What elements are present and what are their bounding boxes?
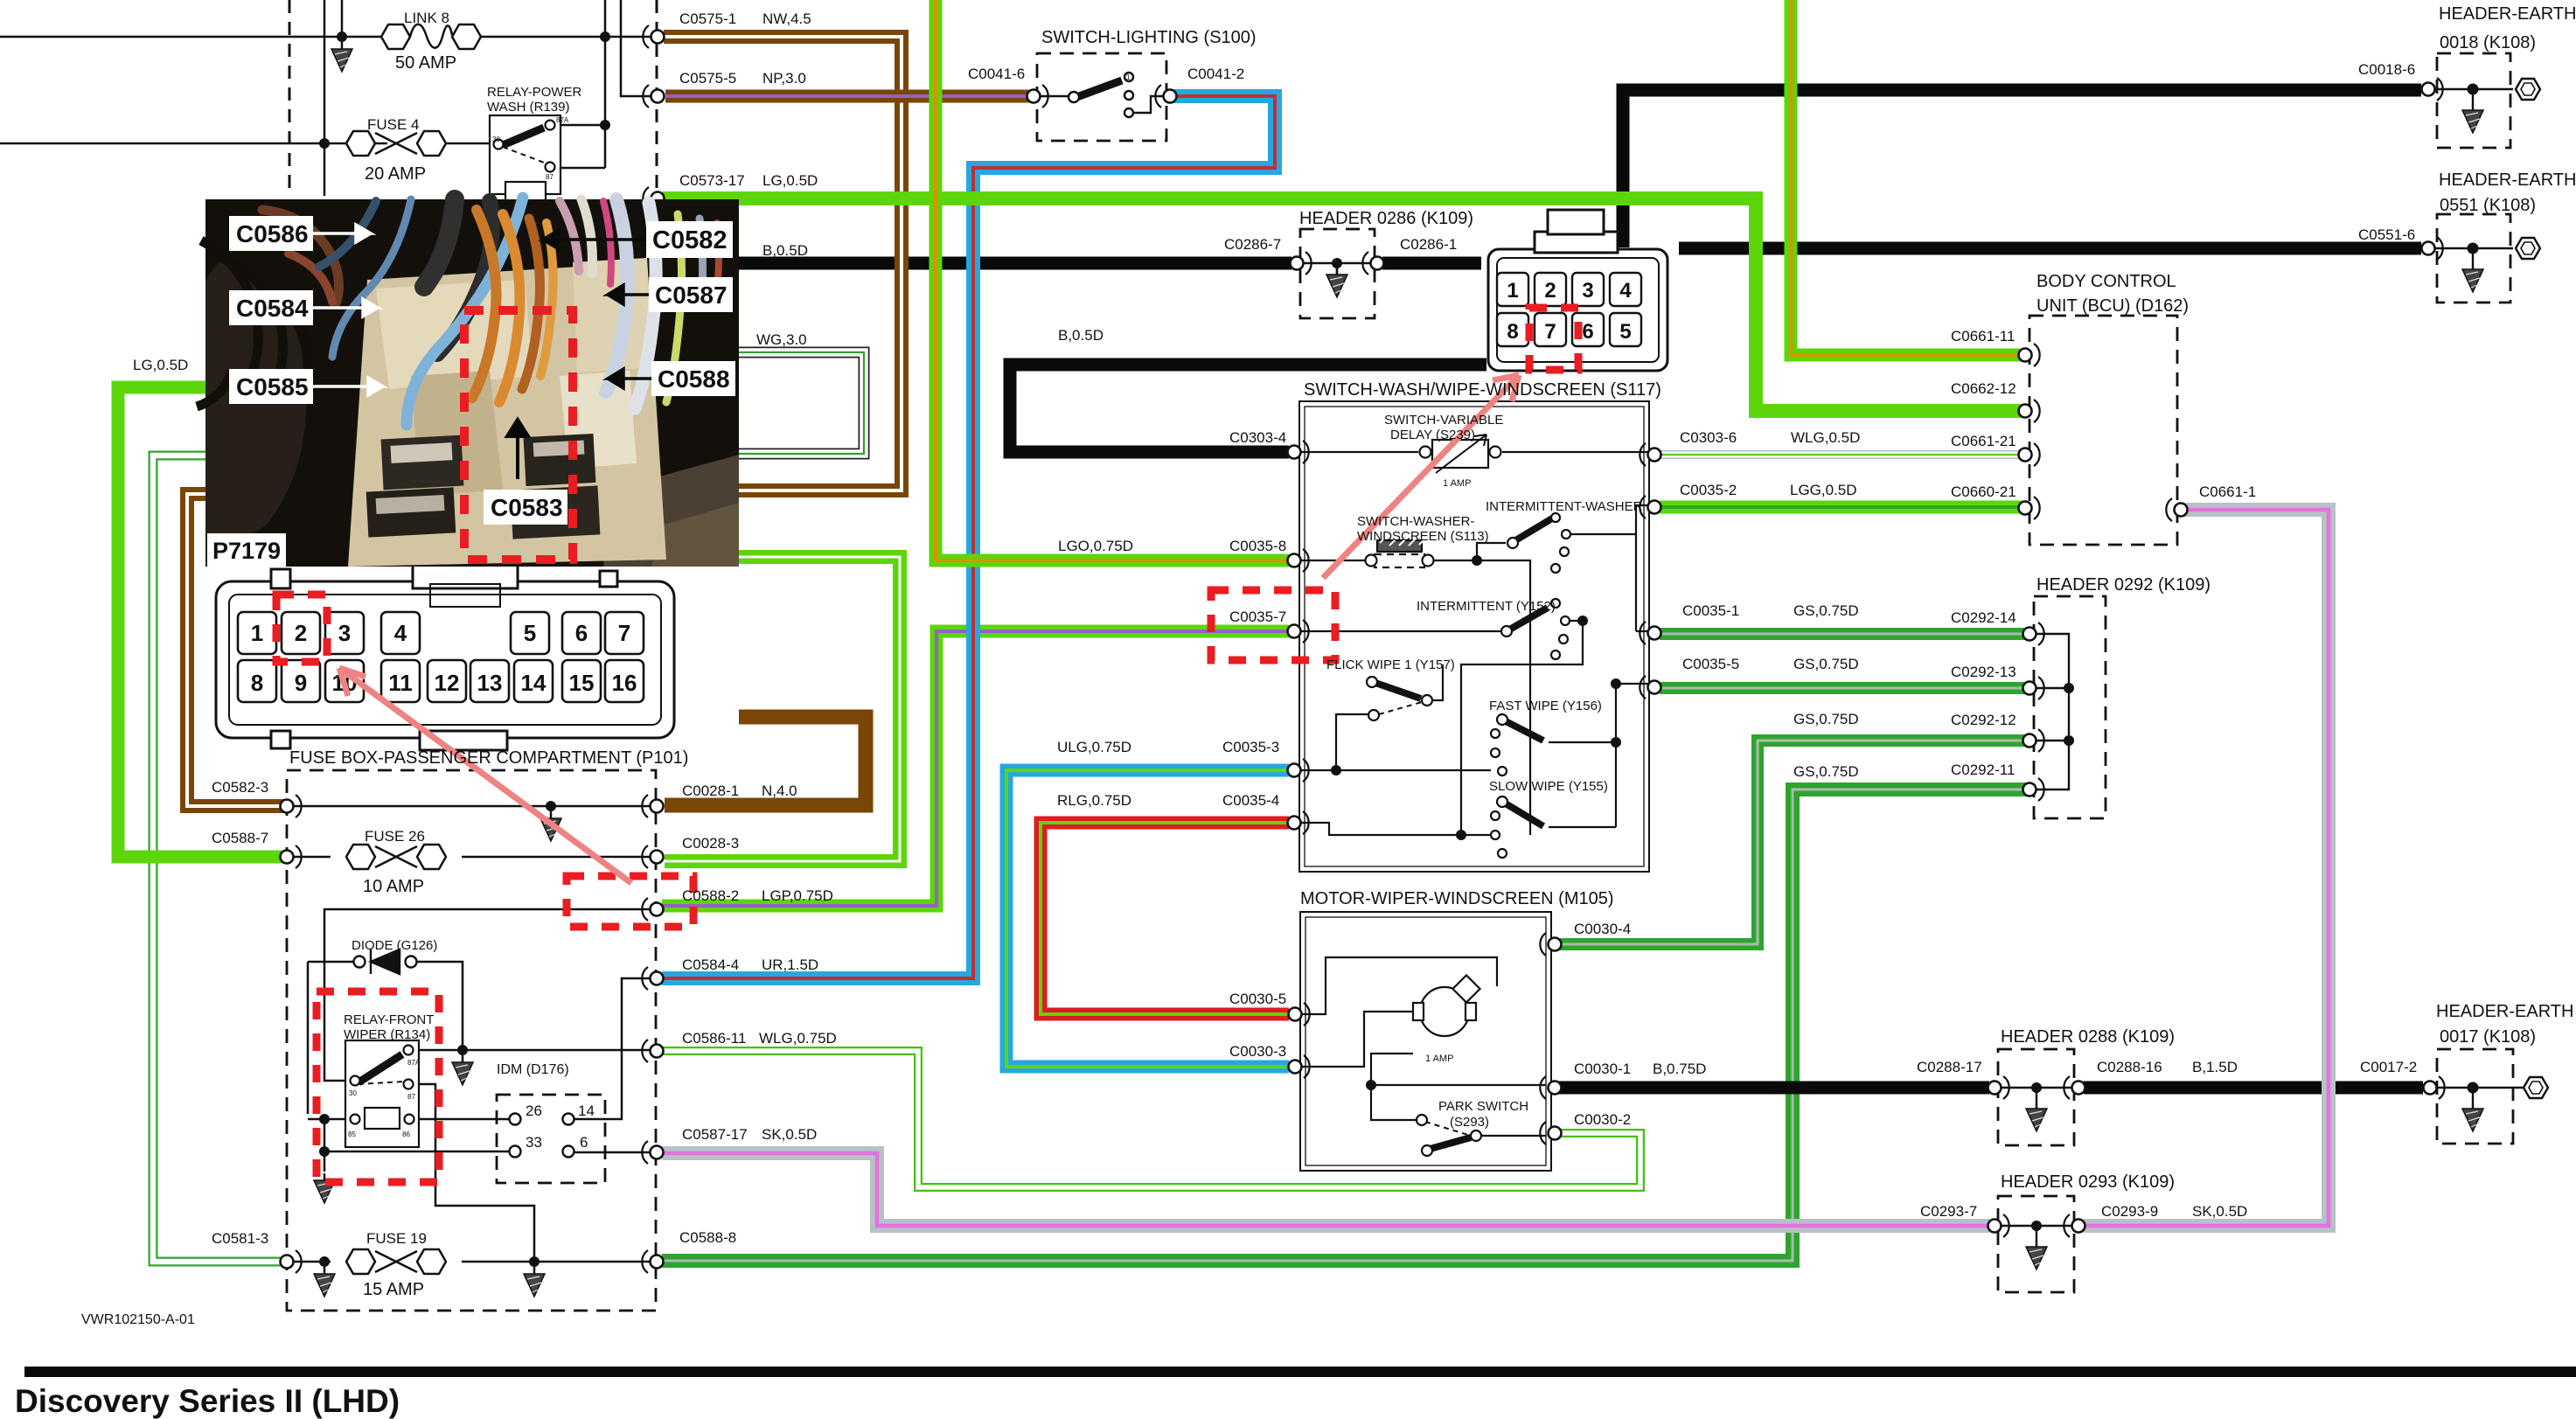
svg-text:C0588-7: C0588-7 (212, 830, 268, 846)
wire 87A to C0586-11 (414, 1049, 651, 1052)
wire FUSE4 row (0, 143, 495, 145)
connectors S117 right edge (1640, 443, 1660, 466)
svg-text:C0662-12: C0662-12 (1951, 380, 2016, 397)
flick wipe Y157 (1375, 683, 1421, 699)
relay R134 RELAY-FRONT WIPER (345, 1040, 419, 1147)
wire IDM 6 to C0587-17 (574, 1151, 651, 1154)
svg-text:C0035-7: C0035-7 (1229, 609, 1286, 625)
svg-text:3: 3 (1582, 279, 1593, 303)
svg-text:2: 2 (295, 620, 307, 646)
wire row C0303-4 to S239 to C0303-6 (1299, 452, 1649, 455)
svg-text:C0035-8: C0035-8 (1229, 538, 1286, 554)
connector boundary dashed line left (289, 0, 291, 196)
svg-text:C0583: C0583 (491, 494, 563, 521)
wire N,4.0 loop C0028-1 (665, 717, 866, 805)
svg-text:50 AMP: 50 AMP (395, 53, 456, 73)
box IDM D176 (497, 1095, 605, 1183)
ground below 87A dot (452, 1055, 473, 1085)
junction dot row922 (546, 801, 556, 811)
svg-text:NP,3.0: NP,3.0 (762, 70, 806, 87)
svg-text:C0551-6: C0551-6 (2358, 226, 2415, 243)
svg-text:C0660-21: C0660-21 (1951, 483, 2016, 500)
wire feed vertical to FUSE 4 (324, 0, 326, 196)
wire WLG,0.75D C0586-11 to C0030-2 (662, 1051, 1640, 1187)
diode G126 (354, 949, 417, 974)
junction dot 87A column (600, 31, 610, 42)
slow wipe Y155 (1504, 803, 1543, 826)
wire LGP,0.75D C0588-2 to C0035-7 (662, 631, 1289, 906)
svg-text:FUSE 19: FUSE 19 (366, 1230, 427, 1247)
svg-text:INTERMITTENT (Y152): INTERMITTENT (Y152) (1417, 599, 1556, 614)
svg-text:87A: 87A (407, 1059, 421, 1067)
svg-text:N,4.0: N,4.0 (762, 783, 797, 799)
photo label P7179 (207, 533, 286, 567)
svg-text:6: 6 (580, 1134, 588, 1151)
wire WG,3.0 loop right of photo (739, 352, 864, 454)
IDM D176 pins (510, 1114, 574, 1158)
svg-text:6: 6 (575, 620, 588, 646)
svg-text:15 AMP: 15 AMP (363, 1280, 424, 1299)
svg-text:C0303-4: C0303-4 (1229, 429, 1286, 446)
photo label C0583 (484, 490, 567, 525)
wire LG C0028-3 loop (665, 557, 900, 861)
motor M105 symbol (1420, 987, 1469, 1036)
wire 85 left (308, 1118, 350, 1121)
photo label C0587 (608, 277, 733, 312)
wire G C0581-3 loop at left (153, 456, 285, 1262)
photo relay blocks (366, 434, 601, 539)
svg-text:C0582-3: C0582-3 (212, 779, 268, 796)
svg-text:26: 26 (526, 1103, 542, 1119)
svg-text:HEADER-EARTH: HEADER-EARTH (2439, 4, 2576, 24)
fuse FUSE 4 (346, 131, 446, 156)
svg-text:HEADER 0288 (K109): HEADER 0288 (K109) (2001, 1027, 2175, 1047)
connectors fuse box right edge (642, 795, 663, 817)
svg-text:0551 (K108): 0551 (K108) (2440, 196, 2536, 215)
photo label C0582 (543, 221, 733, 258)
svg-text:WG,3.0: WG,3.0 (756, 331, 807, 348)
svg-text:FAST WIPE (Y156): FAST WIPE (Y156) (1489, 699, 1602, 713)
box switch-lighting S100 (1037, 53, 1166, 141)
box header-earth 0017 (2437, 1049, 2513, 1144)
svg-text:C0035-2: C0035-2 (1680, 482, 1737, 498)
box fuse box P101 (287, 770, 656, 1311)
red box relay R134 (317, 991, 439, 1182)
wire NW C0582-3 loop at left (187, 494, 285, 806)
red box pin7 of 8-pin (1529, 308, 1578, 370)
svg-text:P7179: P7179 (212, 538, 281, 564)
svg-text:DELAY (S239): DELAY (S239) (1390, 428, 1475, 442)
box header 0288 (1998, 1049, 2074, 1145)
svg-text:C0661-1: C0661-1 (2199, 483, 2256, 500)
fuse FUSE 19 (346, 1249, 446, 1274)
box BCU D162 (2029, 316, 2177, 545)
svg-text:GS,0.75D: GS,0.75D (1793, 602, 1859, 619)
svg-text:SK,0.5D: SK,0.5D (2192, 1203, 2247, 1220)
wire WLG,0.5D C0303-6 to C0661-21 (1660, 450, 2025, 459)
connectors header 0293 (1988, 1214, 2009, 1237)
svg-text:C0293-7: C0293-7 (1920, 1203, 1977, 1220)
svg-text:15: 15 (569, 670, 595, 696)
wire LGO,0.75D vertical 2 to BCU C0661-11 (1791, 0, 2025, 355)
junction dot link8 (337, 31, 347, 42)
svg-text:0018 (K108): 0018 (K108) (2440, 33, 2536, 52)
connectors S117 left edge (1288, 441, 1309, 463)
svg-text:B,1.5D: B,1.5D (2192, 1059, 2238, 1075)
svg-text:C0588-2: C0588-2 (682, 887, 739, 904)
svg-text:4: 4 (394, 620, 407, 646)
svg-text:PARK SWITCH: PARK SWITCH (1438, 1099, 1528, 1114)
svg-text:SWITCH-VARIABLE: SWITCH-VARIABLE (1384, 413, 1503, 428)
svg-text:C0035-3: C0035-3 (1222, 739, 1279, 755)
junction dot fuse19 right (529, 1256, 540, 1267)
svg-text:RLG,0.75D: RLG,0.75D (1057, 792, 1131, 809)
photo label C0586 (229, 216, 371, 251)
svg-text:8: 8 (251, 670, 263, 696)
svg-text:C0587-17: C0587-17 (682, 1126, 748, 1143)
svg-text:IDM (D176): IDM (D176) (497, 1062, 569, 1077)
svg-text:GS,0.75D: GS,0.75D (1793, 763, 1859, 780)
svg-text:C0585: C0585 (236, 373, 309, 400)
svg-text:6: 6 (1582, 320, 1593, 344)
svg-text:C0030-5: C0030-5 (1229, 991, 1286, 1007)
svg-text:C0028-3: C0028-3 (682, 835, 739, 852)
wire 86 to IDM 26 (415, 1118, 509, 1121)
ground below fuse19 left (314, 1267, 335, 1297)
svg-text:HEADER 0293 (K109): HEADER 0293 (K109) (2001, 1172, 2175, 1192)
ground below fuse19 right (524, 1267, 545, 1297)
svg-text:FUSE BOX-PASSENGER COMPARTMENT: FUSE BOX-PASSENGER COMPARTMENT (P101) (289, 748, 688, 768)
connectors header 0292 (2023, 623, 2044, 645)
svg-text:UR,1.5D: UR,1.5D (762, 956, 818, 973)
M105 interior (1300, 957, 1546, 1156)
wire NW,4.5 C0575-1 (664, 37, 902, 490)
svg-text:14: 14 (521, 670, 547, 696)
connectors BCU (2019, 344, 2040, 366)
box header-earth 0551 (2437, 214, 2510, 303)
switch-variable delay S239 resistor (1432, 440, 1488, 468)
photo up arrow at C0583 (507, 420, 528, 479)
svg-text:C0035-5: C0035-5 (1682, 656, 1739, 672)
wire B to header-earth 0018 C0018-6 (1623, 90, 2421, 247)
svg-text:C0030-1: C0030-1 (1574, 1061, 1631, 1077)
svg-text:C0661-11: C0661-11 (1951, 328, 2015, 344)
svg-text:85: 85 (348, 1130, 356, 1138)
svg-text:C0573-17: C0573-17 (679, 172, 745, 189)
photo floor bottom right (603, 455, 739, 567)
wire 33 row to IDM (324, 1119, 509, 1151)
svg-text:C0030-4: C0030-4 (1574, 921, 1631, 937)
svg-text:GS,0.75D: GS,0.75D (1793, 711, 1859, 727)
connectors S100 (1027, 85, 1048, 108)
svg-text:HEADER 0286 (K109): HEADER 0286 (K109) (1299, 209, 1473, 228)
svg-text:SWITCH-WASH/WIPE-WINDSCREEN (S: SWITCH-WASH/WIPE-WINDSCREEN (S117) (1304, 380, 1661, 400)
svg-text:FUSE 4: FUSE 4 (367, 116, 420, 133)
box header-earth 0018 (2437, 53, 2510, 148)
wire row C0582-3/C0028-1 (291, 805, 651, 808)
wire relay 30 feed (324, 1075, 350, 1081)
wire diode row (308, 962, 463, 1114)
svg-text:C0292-13: C0292-13 (1951, 664, 2016, 680)
svg-text:5: 5 (524, 620, 536, 646)
relay R139 coil stub below (mostly hidden by photo) (505, 182, 546, 201)
svg-text:B,0.5D: B,0.5D (762, 242, 808, 259)
svg-text:C0286-7: C0286-7 (1224, 236, 1281, 253)
wire LGG,0.5D C0035-2 to C0660-21 (1660, 501, 2025, 514)
wire link8 to C0575-1 connector (605, 36, 651, 38)
svg-text:C0292-14: C0292-14 (1951, 609, 2016, 626)
park switch S293 (1427, 1137, 1471, 1150)
photo red dashed box (464, 310, 573, 560)
svg-text:ULG,0.75D: ULG,0.75D (1057, 739, 1131, 755)
svg-text:7: 7 (618, 620, 630, 646)
svg-text:14: 14 (578, 1103, 595, 1119)
svg-text:NW,4.5: NW,4.5 (762, 10, 811, 27)
svg-text:10 AMP: 10 AMP (363, 877, 424, 896)
photo wire bundles top (245, 198, 719, 425)
wire 87 branch down to fuse19 row (414, 1084, 534, 1256)
connectors M105 (1289, 1003, 1310, 1026)
svg-text:LINK 8: LINK 8 (404, 10, 449, 26)
svg-text:C0288-17: C0288-17 (1917, 1059, 1982, 1075)
svg-text:VWR102150-A-01: VWR102150-A-01 (81, 1312, 195, 1327)
ULG row C0035-3 (1299, 769, 1491, 771)
svg-text:WLG,0.75D: WLG,0.75D (759, 1030, 837, 1047)
svg-text:RELAY-FRONT: RELAY-FRONT (344, 1012, 434, 1027)
wire UR,1.5D C0041-2 to C0584-4 (662, 96, 1275, 978)
svg-text:C0584: C0584 (236, 295, 309, 322)
svg-text:LG,0.5D: LG,0.5D (133, 357, 188, 373)
wire fuse19 row (291, 1261, 651, 1263)
red box pin2 of 16-pin (276, 595, 327, 662)
svg-text:C0293-9: C0293-9 (2101, 1203, 2158, 1220)
svg-text:C0035-4: C0035-4 (1222, 792, 1279, 809)
svg-text:C0030-2: C0030-2 (1574, 1111, 1631, 1128)
wire top vertical to C0575-5 (621, 0, 651, 96)
wire ULG,0.75D C0035-3 to C0030-3 (1006, 770, 1289, 1067)
box header 0292 (2034, 596, 2106, 818)
wire RLG,0.75D C0035-4 to C0030-5 (1041, 823, 1289, 1014)
svg-text:LGO,0.75D: LGO,0.75D (1058, 538, 1133, 554)
svg-text:20 AMP: 20 AMP (365, 164, 426, 184)
svg-text:C0018-6: C0018-6 (2358, 61, 2415, 78)
wire ground stub below 33 (324, 1151, 326, 1172)
wire C0588-2 branch (324, 909, 651, 1075)
svg-text:C0041-2: C0041-2 (1187, 66, 1244, 82)
svg-text:5: 5 (1619, 320, 1631, 344)
junction dot 85 (319, 1114, 330, 1124)
svg-text:C0041-6: C0041-6 (968, 66, 1025, 82)
wire B,0.5D loop to C0303-4 (1010, 365, 1486, 452)
svg-text:BODY CONTROL: BODY CONTROL (2036, 272, 2176, 291)
svg-text:33: 33 (526, 1134, 542, 1151)
wire GS,0.75D C0588-8 to C0292-11 (662, 789, 2029, 1261)
svg-text:87: 87 (407, 1093, 415, 1101)
svg-text:GS,0.75D: GS,0.75D (1793, 656, 1859, 672)
wire LINK8 row (0, 0, 605, 168)
connectors header 0288 (1988, 1076, 2009, 1099)
junction dot fuse4 (319, 138, 330, 149)
svg-text:C0028-1: C0028-1 (682, 783, 739, 799)
svg-text:LGP,0.75D: LGP,0.75D (762, 887, 833, 904)
svg-text:WLG,0.5D: WLG,0.5D (1791, 429, 1860, 446)
box header 0293 (1998, 1196, 2074, 1292)
fuse FUSE 26 (346, 845, 446, 869)
red box C0588-2 (567, 876, 693, 927)
svg-text:C0588: C0588 (658, 365, 730, 393)
junction dot fuse19 left (319, 1256, 330, 1267)
S117 interior linework (1299, 435, 1649, 858)
svg-text:C0661-21: C0661-21 (1951, 433, 2016, 449)
svg-text:MOTOR-WIPER-WINDSCREEN (M105): MOTOR-WIPER-WINDSCREEN (M105) (1300, 889, 1614, 908)
ground below LINK8 junction (331, 42, 352, 72)
svg-text:1: 1 (251, 620, 263, 646)
photo label C0584 (229, 290, 378, 325)
ground below 33 (314, 1173, 335, 1203)
svg-text:87: 87 (546, 173, 553, 181)
svg-text:C0017-2: C0017-2 (2360, 1059, 2417, 1075)
svg-text:1: 1 (1126, 73, 1131, 81)
svg-text:8: 8 (1507, 320, 1518, 344)
wire B,0.5D C0286-7 from photo to header 0286 (739, 257, 1481, 270)
svg-text:SWITCH-WASHER-: SWITCH-WASHER- (1357, 514, 1474, 529)
box header 0286 (1300, 229, 1375, 318)
svg-text:C0575-5: C0575-5 (679, 70, 736, 87)
wire GS,0.75D C0035-1 to C0292-14 (1660, 628, 2029, 640)
fuse LINK 8 (381, 24, 481, 49)
fast wipe Y156 (1504, 720, 1543, 741)
svg-text:FUSE 26: FUSE 26 (365, 828, 425, 845)
ground below row922 (540, 811, 561, 841)
svg-text:LG,0.5D: LG,0.5D (762, 172, 818, 189)
svg-text:B,0.75D: B,0.75D (1653, 1061, 1706, 1077)
svg-text:C0288-16: C0288-16 (2097, 1059, 2162, 1075)
svg-text:87A: 87A (556, 116, 569, 124)
wire feed vertical to LINK 8 (341, 0, 344, 37)
svg-text:HEADER-EARTH: HEADER-EARTH (2436, 1002, 2573, 1021)
svg-text:HEADER 0292 (K109): HEADER 0292 (K109) (2036, 575, 2210, 595)
svg-text:C0588-8: C0588-8 (679, 1229, 736, 1246)
svg-text:1: 1 (1507, 279, 1518, 303)
wire IDM 14 to C0584-4 (574, 978, 651, 1119)
red box C0035-7 (1211, 590, 1335, 660)
svg-text:DIODE (G126): DIODE (G126) (352, 938, 437, 953)
svg-text:12: 12 (435, 670, 460, 696)
photo label C0588 (608, 361, 735, 396)
svg-text:13: 13 (477, 670, 503, 696)
svg-text:UNIT (BCU) (D162): UNIT (BCU) (D162) (2036, 296, 2189, 316)
photo label C0585 (229, 369, 383, 404)
svg-text:C0584-4: C0584-4 (682, 956, 739, 973)
svg-text:9: 9 (295, 670, 307, 696)
svg-text:3: 3 (338, 620, 351, 646)
connector boundary dashed line x=751 (656, 0, 658, 196)
connectors fuse box left edge (281, 795, 302, 817)
svg-text:C0303-6: C0303-6 (1680, 429, 1737, 446)
intermittent Y152 row C0035-7/C0035-1 (1299, 534, 1649, 631)
svg-text:11: 11 (388, 670, 413, 696)
svg-text:C0581-3: C0581-3 (212, 1230, 268, 1247)
svg-text:(S293): (S293) (1450, 1115, 1489, 1130)
red arrow to pin 2 (339, 668, 631, 883)
svg-text:30: 30 (349, 1089, 357, 1097)
wire B,0.75D C0030-1 to header 0288 to C0017-2 (1556, 1082, 2423, 1095)
svg-text:C0030-3: C0030-3 (1229, 1043, 1286, 1060)
svg-text:7: 7 (1544, 320, 1556, 344)
bottom rule (24, 1367, 2576, 1377)
wire GS,0.75D C0030-4 to C0292-12 (1556, 741, 2029, 944)
wire B to header-earth 0551 C0551-6 (1679, 242, 2421, 255)
photo pale connector blocks on panel (560, 371, 637, 469)
svg-text:LGG,0.5D: LGG,0.5D (1790, 482, 1857, 498)
photo blower ribbed left (205, 262, 306, 567)
svg-text:0017 (K108): 0017 (K108) (2440, 1027, 2536, 1047)
svg-text:C0575-1: C0575-1 (679, 10, 736, 27)
svg-text:B,0.5D: B,0.5D (1058, 327, 1104, 344)
wire GS,0.75D C0035-5 to C0292-13 (1660, 682, 2029, 694)
svg-text:SLOW WIPE (Y155): SLOW WIPE (Y155) (1489, 779, 1608, 794)
wire SK,0.5D C0587-17 to header 0293 to BCU C0661-1 (662, 510, 2329, 1226)
junction dot 33 (319, 1146, 330, 1157)
svg-text:SK,0.5D: SK,0.5D (762, 1126, 817, 1143)
connectors header 0286 (1291, 252, 1312, 275)
svg-text:FLICK WIPE 1 (Y157): FLICK WIPE 1 (Y157) (1326, 657, 1455, 672)
intermittent-washer branch (1477, 543, 1506, 560)
connectors top-left boundary (643, 25, 664, 48)
wire row C0588-7/C0028-3 fuse 26 (291, 856, 651, 859)
svg-text:1 AMP: 1 AMP (1425, 1054, 1453, 1064)
svg-text:30: 30 (492, 136, 500, 143)
wire row S113 C0035-8 (1299, 560, 1477, 561)
svg-text:RELAY-POWER: RELAY-POWER (487, 85, 582, 100)
svg-text:C0286-1: C0286-1 (1400, 236, 1457, 253)
svg-text:C0586: C0586 (236, 220, 309, 247)
svg-text:C0586-11: C0586-11 (682, 1030, 746, 1047)
svg-text:HEADER-EARTH: HEADER-EARTH (2439, 170, 2576, 190)
relay R139 RELAY-POWER WASH (490, 115, 560, 194)
svg-text:16: 16 (612, 670, 637, 696)
svg-text:C0292-12: C0292-12 (1951, 712, 2016, 728)
wire LG,0.5D C0573-17 to BCU C0662-12 (662, 198, 2025, 411)
switch-washer-windscreen S113 (1377, 540, 1422, 552)
red arrow to pin 7 (1323, 375, 1519, 578)
wire NP,3.0 C0575-5 (665, 90, 1033, 103)
svg-text:INTERMITTENT-WASHER: INTERMITTENT-WASHER (1486, 499, 1643, 514)
wire LGO,0.75D vertical to C0035-8 (936, 0, 1289, 560)
svg-text:4: 4 (1619, 279, 1632, 303)
svg-text:1 AMP: 1 AMP (1443, 478, 1471, 489)
wire LG C0588-7 loop at left (118, 387, 285, 857)
svg-text:C0035-1: C0035-1 (1682, 602, 1739, 619)
RLG row C0035-4 (1299, 823, 1491, 835)
photo tan fuse panel center (348, 262, 666, 567)
connectors header-earth (2422, 78, 2443, 101)
junction dot 87A (457, 1045, 468, 1055)
svg-text:WINDSCREEN (S113): WINDSCREEN (S113) (1357, 529, 1489, 544)
svg-text:Discovery Series II (LHD): Discovery Series II (LHD) (15, 1383, 400, 1419)
junction dot 87A line (600, 120, 610, 130)
svg-text:C0587: C0587 (655, 282, 728, 309)
svg-text:86: 86 (402, 1130, 410, 1138)
svg-text:WIPER (R134): WIPER (R134) (344, 1027, 430, 1042)
svg-text:WASH (R139): WASH (R139) (487, 100, 569, 115)
svg-text:2: 2 (1544, 279, 1556, 303)
junction dots S117 (1472, 555, 1482, 566)
svg-text:SWITCH-LIGHTING (S100): SWITCH-LIGHTING (S100) (1041, 28, 1257, 47)
svg-text:C0582: C0582 (652, 226, 727, 254)
svg-text:C0292-11: C0292-11 (1951, 762, 2015, 778)
